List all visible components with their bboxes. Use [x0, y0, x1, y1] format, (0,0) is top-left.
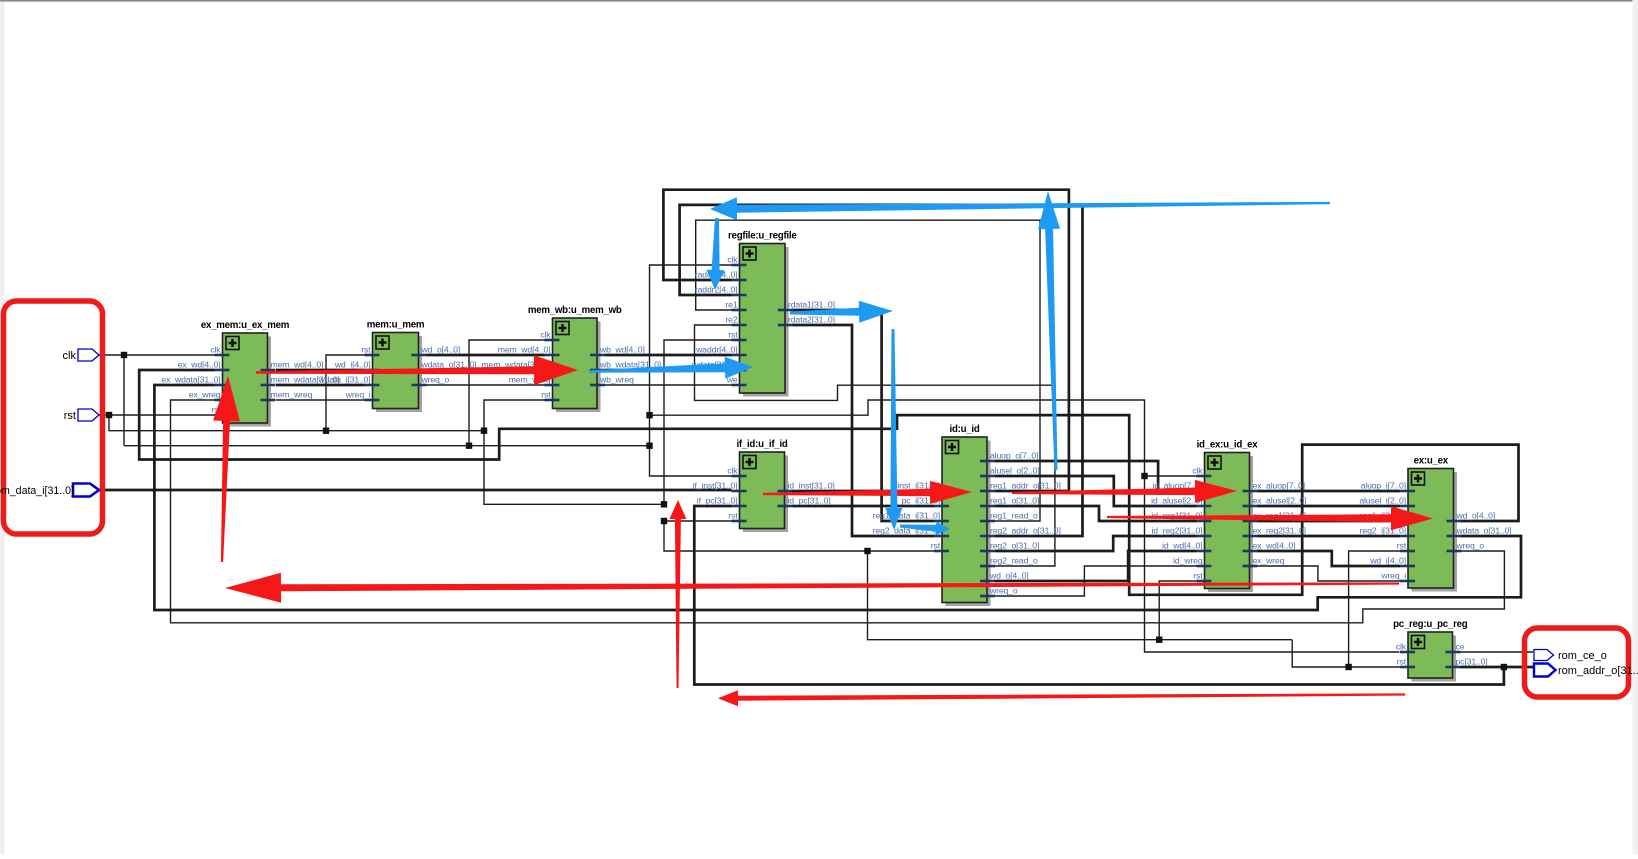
svg-text:rst: rst	[361, 345, 371, 355]
wire ex_reg2 bus id_ex to ex	[1257, 535, 1400, 538]
svg-text:wdata_i[31..0]: wdata_i[31..0]	[318, 375, 371, 385]
svg-text:if_pc[31..0]: if_pc[31..0]	[697, 496, 738, 506]
module id:u_id	[873, 424, 1061, 606]
wire ex wdata_o feedback bus to ex_mem.ex_wdata	[154, 385, 1521, 610]
annotation red arrow id_ex to ex	[1107, 506, 1433, 530]
wire rst: branch up to mem_wb.rst	[484, 400, 545, 431]
top window border line	[0, 0, 1638, 2]
wire mem_wdata bus ex_mem to mem	[276, 384, 365, 387]
wire aluop bus id to id_ex	[995, 461, 1197, 491]
red highlight box left (inputs)	[4, 301, 103, 534]
svg-text:rst: rst	[1397, 657, 1407, 667]
annotation red arrow if_id to id	[763, 481, 972, 504]
annotation red long arrow right-to-left	[225, 573, 1399, 603]
svg-text:rst: rst	[1193, 571, 1203, 581]
svg-text:aluop_i[7..0]: aluop_i[7..0]	[1361, 481, 1406, 491]
svg-text:mem:u_mem: mem:u_mem	[367, 320, 425, 331]
svg-text:wb_wreq: wb_wreq	[599, 375, 634, 385]
wire wreq id to id_ex	[995, 566, 1197, 596]
svg-text:regfile:u_regfile: regfile:u_regfile	[728, 231, 797, 242]
svg-text:ex_wd[4..0]: ex_wd[4..0]	[1253, 541, 1296, 551]
module if_id:u_if_id	[693, 439, 835, 532]
svg-text:pc_reg:u_pc_reg: pc_reg:u_pc_reg	[1393, 619, 1468, 630]
svg-text:clk: clk	[210, 345, 221, 355]
annotation blue arrow wb_wdata to regfile	[589, 357, 753, 379]
svg-text:re2: re2	[725, 315, 737, 325]
svg-text:rst: rst	[728, 511, 738, 521]
wire wd bus id to id_ex	[995, 551, 1197, 581]
svg-text:ex:u_ex: ex:u_ex	[1414, 456, 1449, 467]
wire mem_wreq ex_mem to mem	[276, 399, 365, 401]
svg-text:if_inst[31..0]: if_inst[31..0]	[693, 481, 738, 491]
wire pc bus: pc_reg.pc to rom_addr_o port	[1460, 666, 1533, 669]
svg-text:wd_i[4..0]: wd_i[4..0]	[334, 360, 371, 370]
svg-text:wreq_i: wreq_i	[345, 390, 371, 400]
wire rst: branch to if_id.rst	[664, 520, 732, 522]
wire reg2_addr bus id to regfile.raddr2	[680, 205, 1083, 536]
scrollbar strip right	[1633, 0, 1638, 854]
svg-text:clk: clk	[63, 350, 77, 362]
svg-text:id_inst[31..0]: id_inst[31..0]	[788, 481, 835, 491]
svg-text:id_wd[4..0]: id_wd[4..0]	[1162, 541, 1202, 551]
wire rom_data_i bus to if_id.if_inst	[99, 489, 732, 492]
wire clk: input port to ex_mem.clk	[97, 354, 215, 356]
wire rdata2 bus regfile to id.reg2_data_i	[792, 325, 934, 536]
svg-text:wd_i[4..0]: wd_i[4..0]	[1369, 556, 1406, 566]
module ex:u_ex	[1359, 456, 1511, 592]
svg-text:ex_wreq: ex_wreq	[189, 390, 221, 400]
svg-text:rom_ce_o: rom_ce_o	[1558, 650, 1607, 662]
wire id_pc bus if_id to id	[792, 505, 934, 508]
wire reg1 bus id to id_ex	[995, 506, 1197, 521]
wire reg1_addr bus id to regfile.raddr1	[663, 190, 1069, 491]
svg-text:wd_o[4..0]: wd_o[4..0]	[421, 345, 461, 355]
annotation blue small arrow into id	[900, 521, 950, 535]
annotation red bottom long arrow	[718, 690, 1405, 706]
svg-text:rst: rst	[931, 541, 941, 551]
svg-text:ex_wreq: ex_wreq	[1253, 556, 1285, 566]
wire rst: down x=664 and over to id.rst	[664, 521, 934, 551]
wire clk: branch to id_ex and pc_reg	[650, 400, 1400, 652]
svg-text:rst: rst	[1397, 541, 1407, 551]
input port rst	[64, 409, 99, 422]
input port rom_data_i[31..0]	[0, 484, 99, 498]
wire wdata_o bus mem to mem_wb	[426, 369, 545, 372]
wire ex_alusel bus id_ex to ex	[1257, 505, 1400, 508]
wire clk: riser x=649.5 regfile.clk to if_id.clk	[650, 265, 733, 476]
svg-text:mem_wreq: mem_wreq	[271, 390, 313, 400]
svg-text:reg2_addr_o[31..0]: reg2_addr_o[31..0]	[990, 526, 1061, 536]
wire rst: branch up to mem.rst	[326, 355, 365, 431]
wire alusel bus id to id_ex	[995, 476, 1197, 506]
svg-text:id:u_id: id:u_id	[950, 424, 980, 435]
wire mem_wd bus ex_mem to mem	[276, 369, 365, 372]
wire wb_wreq mem_wb to regfile.we	[605, 384, 732, 386]
wire wb_wdata bus mem_wb to regfile.wdata	[605, 369, 732, 372]
svg-text:wdata_o[31..0]: wdata_o[31..0]	[1456, 526, 1512, 536]
svg-text:ex_alusel[2..0]: ex_alusel[2..0]	[1253, 496, 1307, 506]
module ex_mem:u_ex_mem	[161, 320, 339, 427]
svg-text:mem_wd[4..0]: mem_wd[4..0]	[498, 345, 551, 355]
svg-text:reg2_read_o: reg2_read_o	[990, 556, 1038, 566]
svg-text:clk: clk	[1192, 466, 1203, 476]
wire wb_wd bus mem_wb to regfile.waddr	[605, 354, 732, 357]
wire rst: riser x=1348.6 to ex.rst	[1349, 551, 1400, 667]
wire rst: drop x=867.5 to rail y=639.7	[868, 551, 1293, 640]
wire clk: horizontal rail y=445.7	[124, 445, 650, 447]
svg-text:reg1_read_o: reg1_read_o	[990, 511, 1038, 521]
svg-text:wreq_o: wreq_o	[1456, 541, 1485, 551]
wire ex_wd bus id_ex to ex.wd_i	[1257, 551, 1400, 566]
module pc_reg:u_pc_reg	[1393, 619, 1487, 682]
wire ex_reg1 bus id_ex to ex	[1257, 520, 1400, 523]
svg-text:ex_aluop[7..0]: ex_aluop[7..0]	[1253, 481, 1305, 491]
svg-text:wd_o[4..0]: wd_o[4..0]	[1456, 511, 1496, 521]
svg-text:reg1_o[31..0]: reg1_o[31..0]	[990, 496, 1039, 506]
wire rdata1 bus regfile to id.reg1_data_i	[792, 310, 934, 521]
svg-text:if_id:u_if_id: if_id:u_if_id	[736, 439, 787, 450]
output port rom_ce_o	[1534, 650, 1607, 663]
wire ce: pc_reg.ce to rom_ce_o port	[1460, 651, 1533, 653]
annotation blue arrow up right side	[1038, 191, 1060, 470]
wire rst: input port to ex_mem.rst	[97, 414, 215, 416]
svg-text:reg1_addr_o[31..0]: reg1_addr_o[31..0]	[990, 481, 1061, 491]
svg-text:ex_mem:u_ex_mem: ex_mem:u_ex_mem	[201, 320, 290, 331]
module mem_wb:u_mem_wb	[481, 305, 661, 412]
svg-text:rom_addr_o[31..0]: rom_addr_o[31..0]	[1558, 665, 1638, 677]
svg-text:rdata2[31..0]: rdata2[31..0]	[788, 315, 835, 325]
svg-text:alusel_i[2..0]: alusel_i[2..0]	[1359, 496, 1406, 506]
wire reg2 bus id to id_ex	[995, 536, 1197, 551]
svg-text:pc[31..0]: pc[31..0]	[1456, 657, 1488, 667]
svg-text:re1: re1	[725, 300, 737, 310]
annotation blue arrow down reg data	[885, 329, 902, 530]
scrollbar strip left	[0, 0, 5, 854]
annotation blue arrow down to raddr2	[707, 218, 725, 290]
svg-text:id_reg2[31..0]: id_reg2[31..0]	[1151, 526, 1202, 536]
annotation blue long arrow to regfile top	[710, 197, 1330, 220]
module id_ex:u_id_ex	[1151, 440, 1306, 593]
wire reg1_read id to regfile.re1	[696, 220, 1040, 521]
module regfile:u_regfile	[691, 231, 835, 397]
input port clk	[63, 349, 99, 362]
svg-text:id_ex:u_id_ex: id_ex:u_id_ex	[1197, 440, 1259, 451]
annotation red arrow up into ex_mem	[213, 376, 240, 562]
module mem:u_mem	[318, 320, 477, 413]
wire wd_o bus mem to mem_wb	[426, 354, 545, 357]
svg-text:waddr[4..0]: waddr[4..0]	[695, 345, 737, 355]
svg-text:mem_wd[4..0]: mem_wd[4..0]	[271, 360, 324, 370]
svg-text:clk: clk	[727, 466, 738, 476]
svg-text:id_alusel[2..0]: id_alusel[2..0]	[1151, 496, 1202, 506]
annotation red arrow up to if_id	[669, 500, 686, 688]
svg-text:reg2_o[31..0]: reg2_o[31..0]	[990, 541, 1039, 551]
svg-text:clk: clk	[727, 255, 738, 265]
wire reg2_read id to regfile.re2	[695, 325, 1055, 566]
svg-text:mem_wb:u_mem_wb: mem_wb:u_mem_wb	[528, 305, 622, 316]
wire clk: stub branch to id_ex.clk	[1145, 475, 1197, 477]
svg-text:wreq_o: wreq_o	[421, 375, 450, 385]
junction dots group	[106, 352, 1507, 670]
svg-text:clk: clk	[540, 330, 551, 340]
wire rst: down to y=504.3 and over to x=664	[484, 431, 664, 505]
wire ex_aluop bus id_ex to ex	[1257, 490, 1400, 493]
wire clk: branch up to mem_wb.clk	[469, 340, 545, 446]
wire rst: drop from junction x=109	[109, 415, 484, 431]
svg-text:rdata1[31..0]: rdata1[31..0]	[788, 300, 835, 310]
wire clk: drop from junction at x=124	[123, 355, 125, 446]
svg-text:ex_reg2[31..0]: ex_reg2[31..0]	[1253, 526, 1306, 536]
annotation red arrow ex_mem to mem_wb	[256, 355, 578, 385]
wire wreq_o mem to mem_wb	[426, 384, 545, 386]
annotation red arrow id to id_ex	[1012, 480, 1237, 503]
svg-text:ce: ce	[1456, 642, 1465, 652]
svg-text:rst: rst	[541, 390, 551, 400]
wire pc bus: feedback loop to if_id.if_pc	[694, 506, 1504, 685]
wire ex wreq_o feedback to ex_mem.ex_wreq	[171, 400, 1505, 623]
svg-text:clk: clk	[1396, 642, 1407, 652]
wire rst: riser x=664 up to regfile.rst	[664, 340, 732, 504]
wire rst: riser to id_ex.rst	[1159, 581, 1196, 640]
svg-text:wreq_i: wreq_i	[1380, 571, 1406, 581]
svg-text:id_pc[31..0]: id_pc[31..0]	[788, 496, 831, 506]
svg-text:id_wreq: id_wreq	[1173, 556, 1203, 566]
svg-text:rom_data_i[31..0]: rom_data_i[31..0]	[0, 485, 74, 497]
svg-text:reg1_data_i[31..0]: reg1_data_i[31..0]	[873, 511, 940, 521]
wire rst: drop to pc_reg.rst row	[1292, 640, 1400, 667]
svg-text:ex_wdata[31..0]: ex_wdata[31..0]	[161, 375, 220, 385]
svg-text:rst: rst	[728, 330, 738, 340]
svg-text:alusel_o[2..0]: alusel_o[2..0]	[990, 466, 1040, 476]
annotation blue arrow rdata1 to the right	[790, 301, 893, 323]
output port rom_addr_o[31..0]	[1534, 664, 1638, 678]
wire id_inst bus if_id to id	[792, 490, 934, 493]
svg-text:aluop_o[7..0]: aluop_o[7..0]	[990, 451, 1038, 461]
red highlight box right (outputs)	[1525, 628, 1629, 697]
svg-text:ex_wd[4..0]: ex_wd[4..0]	[178, 360, 221, 370]
svg-text:wb_wd[4..0]: wb_wd[4..0]	[599, 345, 645, 355]
wire ex wd_o feedback bus to ex_mem.ex_wd	[139, 370, 1518, 595]
svg-text:wd_o[4..0]: wd_o[4..0]	[989, 571, 1029, 581]
svg-text:rst: rst	[64, 410, 76, 422]
wire ex_wreq id_ex to ex.wreq_i	[1257, 566, 1400, 581]
